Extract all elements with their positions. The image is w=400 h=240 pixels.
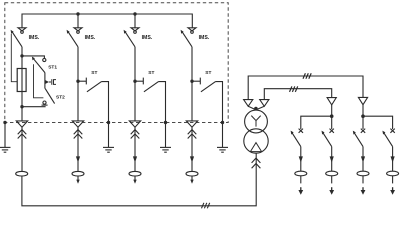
switch-disconnector IMS3	[124, 28, 139, 47]
wire node A down	[331, 116, 333, 129]
cable termination transformer left	[244, 100, 255, 110]
outgoing arrow load leg 2	[331, 187, 333, 190]
test point contact (mid)	[45, 79, 56, 85]
wire termination A to node	[331, 105, 333, 116]
load switch Q4	[382, 129, 394, 147]
CT load leg 4	[387, 171, 399, 176]
wire load leg 1 lower	[300, 176, 302, 184]
outgoing arrow load leg 1	[300, 187, 302, 190]
junction earth conductor feeder3 on enclosure edge	[164, 121, 167, 124]
earthing switch ST2	[42, 89, 55, 106]
switch-disconnector IMS1	[11, 28, 26, 47]
transformer T1 primary winding (wye)	[245, 110, 268, 133]
wire node B down	[362, 116, 364, 129]
wire branch node A left	[301, 116, 332, 129]
junction node B	[361, 114, 365, 118]
wire earth conductor feeder2	[108, 123, 110, 148]
junction enclosure corner earth	[3, 121, 6, 124]
wire LV bus (feeder1 CT to transformer)	[22, 153, 256, 206]
wire feeder1 to CT	[21, 127, 23, 171]
junction feeder3 earth tap	[133, 80, 136, 83]
wire feeder1 IMS to fuse	[21, 47, 23, 69]
earthing switch ST (feeder3)	[135, 78, 166, 123]
busbar (top MV bus)	[22, 14, 192, 28]
svg-text:ST1: ST1	[48, 64, 57, 70]
switch-disconnector IMS2	[67, 28, 82, 47]
wire enclosure earth drop	[4, 123, 6, 148]
flow arrow load leg 1	[299, 156, 303, 162]
CT feeder4	[186, 171, 198, 176]
outgoing arrow feeder4	[190, 180, 193, 184]
cable termination feeder1	[16, 121, 27, 139]
CT feeder1	[16, 171, 28, 176]
junction feeder1 upper tap	[20, 54, 23, 57]
wire distribution line 2 (lower)	[264, 89, 331, 100]
flow arrow feeder4	[190, 156, 194, 162]
phase marks line 1	[303, 73, 311, 79]
CT load leg 3	[357, 171, 369, 176]
wire load leg 2 lower	[331, 176, 333, 184]
svg-text:ST: ST	[148, 70, 154, 76]
wire bus stub feeder2	[77, 14, 79, 28]
fuse F1	[17, 69, 26, 92]
wire earth conductor feeder4	[222, 123, 224, 148]
cable termination distribution A	[327, 98, 336, 105]
svg-text:ST: ST	[91, 70, 97, 76]
wire termination B to node	[362, 105, 364, 117]
transformer T1 secondary winding (delta)	[244, 129, 268, 153]
ground (feeder2 earthing)	[103, 147, 114, 152]
phase marks LV bus	[202, 203, 210, 209]
cable termination distribution B	[358, 97, 367, 104]
svg-text:IMS.: IMS.	[29, 35, 40, 41]
wire upper tap branch	[22, 56, 44, 58]
svg-text:IMS.: IMS.	[199, 35, 210, 41]
junction bus-feeder2	[76, 12, 79, 15]
junction feeder4 earth tap	[190, 80, 193, 83]
wire load leg 4 lower	[392, 176, 394, 184]
junction bus-feeder3	[133, 12, 136, 15]
wire feeder4 cable down	[191, 127, 193, 171]
delta symbol	[250, 143, 261, 152]
wire lower tap branch	[22, 106, 46, 108]
outgoing arrow feeder2	[76, 180, 79, 184]
cable termination transformer right	[257, 100, 269, 110]
phase marks line 2	[290, 86, 298, 92]
wire earth conductor feeder3	[165, 123, 167, 148]
wire bus stub feeder3	[134, 14, 136, 28]
junction feeder2 earth tap	[76, 80, 79, 83]
cable termination feeder4	[186, 121, 197, 139]
wire load leg 2	[331, 147, 333, 172]
outgoing stub feeder3	[134, 176, 136, 180]
earthing switch ST1	[32, 57, 46, 73]
svg-text:IMS.: IMS.	[85, 35, 96, 41]
wire HV node to winding	[255, 109, 257, 111]
flow arrow load leg 2	[330, 156, 334, 162]
load switch Q1	[291, 129, 303, 147]
outgoing stub feeder2	[77, 176, 79, 180]
outgoing arrow feeder3	[133, 180, 136, 184]
ground (feeder4 earthing)	[217, 147, 228, 152]
ground (enclosure)	[0, 147, 11, 152]
wire feeder4 vertical	[191, 47, 193, 121]
wire ST1-ST2 mid conductor	[44, 73, 46, 89]
wire feeder3 vertical	[134, 47, 136, 121]
flow arrow feeder2	[76, 156, 80, 162]
junction node A	[330, 114, 334, 118]
switch-disconnector IMS4	[181, 28, 196, 47]
junction earth conductor feeder4 on enclosure edge	[221, 121, 224, 124]
earthing switch ST (feeder2)	[78, 78, 109, 123]
CT feeder3	[129, 171, 141, 176]
wye symbol	[251, 116, 260, 127]
flow arrow feeder3	[133, 156, 137, 162]
svg-text:ST2: ST2	[56, 95, 65, 101]
junction feeder1 lower tap	[20, 105, 23, 108]
wire load leg 3 lower	[362, 176, 364, 184]
svg-text:ST: ST	[205, 70, 211, 76]
wire feeder2 vertical	[77, 47, 79, 121]
outgoing stub feeder4	[191, 176, 193, 180]
junction earth conductor feeder2 on enclosure edge	[107, 121, 110, 124]
load switch Q3	[353, 129, 365, 147]
flow arrow load leg 3	[361, 156, 365, 162]
CT load leg 1	[295, 171, 307, 176]
wire feeder3 cable down	[134, 127, 136, 171]
enclosure dashed box (switchgear cubicle boundary)	[5, 3, 228, 123]
cable termination feeder2	[72, 121, 83, 139]
wire load leg 3	[362, 147, 364, 172]
CT load leg 2	[326, 171, 338, 176]
CT feeder2	[72, 171, 84, 176]
cable chevrons under transformer	[252, 158, 261, 168]
wire distribution line 1 (upper)	[248, 76, 363, 100]
load switch Q2	[322, 129, 334, 147]
ground (feeder3 earthing)	[160, 147, 171, 152]
svg-text:IMS.: IMS.	[142, 35, 153, 41]
flow arrow load leg 4	[391, 156, 395, 162]
wire load leg 4	[392, 147, 394, 172]
wire feeder2 cable down	[77, 127, 79, 171]
wire load leg 1	[300, 147, 302, 172]
wire branch node B right	[363, 116, 393, 129]
outgoing arrow load leg 3	[362, 187, 364, 190]
wire feeder1 through fuse	[21, 69, 23, 121]
cable termination feeder3	[129, 121, 140, 139]
interlock link ST1-ST2	[34, 64, 44, 98]
outgoing arrow load leg 4	[392, 187, 394, 190]
interlock link IMS1-fuse	[11, 34, 17, 82]
junction transformer HV node	[254, 107, 258, 111]
earthing switch ST (feeder4)	[192, 78, 223, 123]
